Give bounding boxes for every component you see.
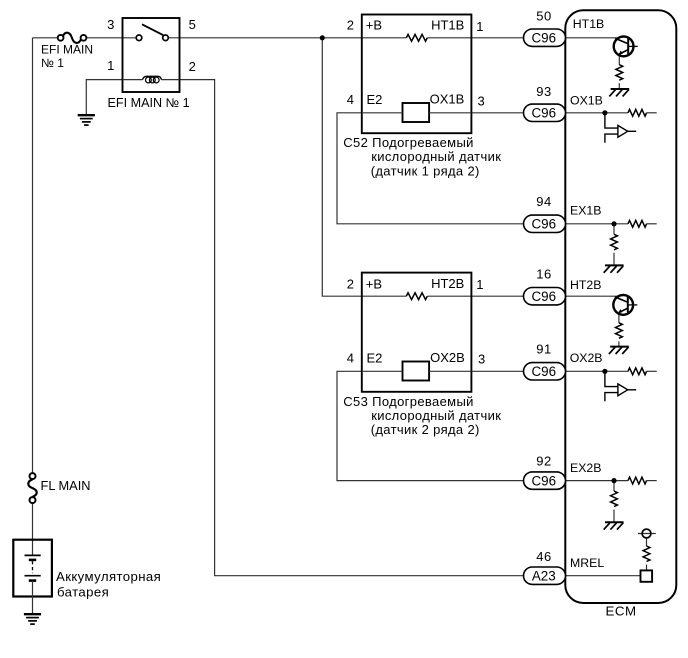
svg-text:C96: C96 bbox=[532, 474, 557, 489]
svg-text:Аккумуляторная: Аккумуляторная bbox=[56, 569, 161, 584]
svg-text:92: 92 bbox=[536, 453, 551, 468]
svg-text:2: 2 bbox=[189, 59, 196, 74]
node EX2B bbox=[611, 478, 616, 483]
svg-text:3: 3 bbox=[478, 352, 485, 367]
ground (relay coil) bbox=[78, 115, 95, 125]
connector C96 pin 50 oval bbox=[524, 8, 566, 46]
svg-text:HT1B: HT1B bbox=[573, 17, 604, 31]
svg-text:OX1B: OX1B bbox=[430, 92, 465, 107]
wire OX2B oval to resistor bbox=[566, 370, 629, 372]
wire relay pin 1 to coil bbox=[123, 79, 143, 81]
sensor C52 element box bbox=[403, 103, 430, 122]
connector C96 pin 94 oval bbox=[524, 194, 566, 233]
wire EX2B resistor to chassis ground bbox=[613, 510, 615, 522]
chassis ground HT2B bbox=[609, 347, 629, 354]
wire junction to C53 +B bbox=[322, 38, 406, 296]
svg-text:E2: E2 bbox=[367, 92, 383, 107]
svg-text:EFI MAIN: EFI MAIN bbox=[41, 42, 93, 56]
wire relay pin 5 to C52 +B bbox=[168, 37, 406, 39]
sensor C53 element box bbox=[403, 362, 430, 381]
svg-text:+B: +B bbox=[366, 276, 382, 291]
ECM box bbox=[565, 10, 676, 603]
wire HT2B oval to transistor bbox=[566, 295, 620, 297]
resistor HT2B emitter bbox=[616, 323, 623, 339]
wire battery negative to ground bbox=[32, 581, 34, 614]
chassis ground EX1B bbox=[604, 265, 624, 272]
svg-text:HT2B: HT2B bbox=[431, 276, 464, 291]
wire MREL oval to driver square bbox=[566, 575, 641, 577]
connector C96 pin 16 oval bbox=[524, 267, 566, 305]
svg-text:94: 94 bbox=[536, 194, 551, 209]
relay switch contact right bbox=[163, 35, 169, 41]
wire C52 E2 inside bbox=[362, 112, 403, 114]
svg-text:OX2B: OX2B bbox=[570, 351, 603, 365]
svg-text:ECM: ECM bbox=[605, 604, 636, 619]
wire relay pin 2 to A23 oval bbox=[180, 80, 524, 576]
transistor HT2B driver bbox=[613, 295, 637, 315]
svg-text:93: 93 bbox=[536, 84, 551, 99]
wire MREL supply bar bbox=[638, 533, 656, 535]
wire EX1B pulldown bbox=[613, 224, 615, 235]
wire C53 +B resistor to HT2B oval bbox=[427, 295, 523, 297]
chassis ground EX2B bbox=[604, 522, 624, 529]
sensor C53 box bbox=[362, 273, 472, 392]
svg-text:EFI MAIN № 1: EFI MAIN № 1 bbox=[108, 96, 190, 110]
svg-text:(датчик 2 ряда 2): (датчик 2 ряда 2) bbox=[371, 422, 480, 437]
svg-text:C96: C96 bbox=[532, 217, 557, 232]
relay coil bbox=[143, 76, 162, 79]
resistor C53 heater bbox=[406, 293, 427, 300]
wire coil to relay pin 2 bbox=[161, 79, 179, 81]
svg-text:1: 1 bbox=[107, 58, 114, 73]
relay box EFI MAIN No1 bbox=[123, 18, 180, 92]
svg-text:5: 5 bbox=[189, 17, 196, 32]
svg-text:1: 1 bbox=[476, 277, 483, 292]
wire top horizontal from riser to fuse bbox=[33, 37, 58, 39]
wire C53 E2 inside bbox=[362, 370, 403, 372]
svg-text:3: 3 bbox=[478, 93, 485, 108]
fuse FL MAIN bbox=[28, 473, 36, 503]
svg-text:16: 16 bbox=[536, 267, 551, 282]
svg-text:EX2B: EX2B bbox=[570, 461, 601, 475]
wire C52 OX1B to oval bbox=[472, 112, 524, 114]
svg-text:OX1B: OX1B bbox=[570, 93, 603, 107]
connector C96 pin 92 oval bbox=[524, 453, 566, 489]
connector C96 pin 91 oval bbox=[524, 341, 566, 380]
battery cell 1 positive plate bbox=[25, 554, 41, 556]
svg-text:кислородный датчик: кислородный датчик bbox=[371, 149, 501, 164]
svg-text:4: 4 bbox=[347, 350, 354, 365]
relay switch blade bbox=[142, 24, 163, 35]
wire OX2B resistor stub bbox=[647, 370, 657, 372]
battery cell 2 negative plate bbox=[29, 579, 36, 582]
svg-text:E2: E2 bbox=[367, 350, 383, 365]
wire EX1B resistor to chassis ground bbox=[613, 253, 615, 265]
resistor EX1B pulldown bbox=[611, 234, 618, 250]
wire MREL supply circle to resistor bbox=[646, 538, 648, 546]
wire C52 element to OX1B pin bbox=[429, 112, 471, 114]
wire EX1B resistor stub bbox=[647, 223, 657, 225]
battery cell 1 negative plate bbox=[29, 559, 36, 562]
MREL supply terminal circle bbox=[642, 529, 651, 538]
svg-text:C53 Подогреваемый: C53 Подогреваемый bbox=[343, 394, 473, 409]
wire EX2B resistor stub bbox=[647, 480, 657, 482]
svg-text:HT1B: HT1B bbox=[431, 18, 464, 33]
svg-text:C96: C96 bbox=[532, 106, 557, 121]
MREL driver square bbox=[641, 570, 653, 581]
wire HT1B oval to transistor bbox=[566, 37, 620, 39]
wire HT1B resistor to chassis ground bbox=[618, 83, 620, 88]
resistor EX1B series bbox=[628, 220, 647, 227]
resistor OX2B series bbox=[628, 368, 647, 375]
svg-text:C96: C96 bbox=[532, 289, 557, 304]
resistor OX1B series bbox=[628, 109, 647, 116]
svg-text:OX2B: OX2B bbox=[430, 350, 465, 365]
connector A23 pin 46 oval bbox=[524, 549, 566, 585]
wire C52 E2 to EX1B oval bbox=[337, 113, 524, 224]
svg-text:+B: +B bbox=[366, 18, 382, 33]
resistor EX2B series bbox=[628, 477, 647, 484]
chassis ground HT1B bbox=[609, 89, 629, 96]
relay switch contact left bbox=[136, 35, 142, 41]
wire OX1B resistor stub bbox=[647, 112, 657, 114]
wire OX1B oval to resistor bbox=[566, 112, 629, 114]
wire relay pin 1 to ground bbox=[86, 80, 122, 115]
sensor C52 box bbox=[362, 15, 472, 134]
resistor EX2B pulldown bbox=[611, 491, 618, 507]
resistor MREL pullup bbox=[643, 546, 650, 562]
wire: battery positive riser + top feed bbox=[33, 38, 657, 576]
resistor C52 heater bbox=[406, 34, 427, 41]
wire HT2B resistor to chassis ground bbox=[618, 341, 620, 346]
wire fuse to relay pin 3 bbox=[86, 37, 136, 39]
svg-text:50: 50 bbox=[536, 8, 551, 23]
svg-text:1: 1 bbox=[476, 19, 483, 34]
wire C53 E2 to EX2B oval bbox=[337, 371, 524, 480]
wire EX2B pulldown bbox=[613, 481, 615, 492]
wire MREL resistor to square bbox=[646, 565, 648, 571]
svg-text:46: 46 bbox=[536, 549, 551, 564]
svg-text:91: 91 bbox=[536, 341, 551, 356]
wire C52 +B resistor to HT1B oval bbox=[427, 37, 523, 39]
transistor HT1B driver bbox=[614, 37, 638, 57]
wire HT2B emitter to resistor bbox=[618, 313, 620, 323]
comparator OX1B input stage bbox=[605, 113, 636, 143]
resistor HT1B emitter bbox=[616, 65, 623, 81]
node EX1B bbox=[611, 221, 616, 226]
svg-text:кислородный датчик: кислородный датчик bbox=[371, 408, 501, 423]
wire C53 OX2B to oval bbox=[472, 370, 524, 372]
wire EX2B oval to resistor bbox=[566, 480, 629, 482]
comparator OX2B input stage bbox=[605, 371, 636, 401]
svg-text:MREL: MREL bbox=[570, 556, 604, 570]
wire C53 element to OX2B pin bbox=[429, 370, 471, 372]
ground (battery) bbox=[24, 614, 41, 624]
svg-text:батарея: батарея bbox=[57, 585, 109, 600]
svg-text:2: 2 bbox=[347, 18, 354, 33]
svg-text:C96: C96 bbox=[532, 31, 557, 46]
wire HT1B emitter to resistor bbox=[618, 54, 620, 64]
svg-text:№ 1: № 1 bbox=[41, 56, 64, 70]
battery box bbox=[13, 540, 52, 597]
svg-text:FL MAIN: FL MAIN bbox=[41, 478, 91, 493]
fuse EFI MAIN No1 bbox=[58, 33, 87, 43]
wire fuse FL MAIN to battery bbox=[32, 503, 34, 555]
svg-text:(датчик 1 ряда 2): (датчик 1 ряда 2) bbox=[371, 163, 480, 178]
node OX1B bbox=[602, 110, 607, 115]
svg-text:C52 Подогреваемый: C52 Подогреваемый bbox=[343, 135, 473, 150]
connector C96 pin 93 oval bbox=[524, 84, 566, 122]
wire left riser bbox=[32, 38, 34, 473]
svg-text:HT2B: HT2B bbox=[570, 278, 601, 292]
node junction at relay output bbox=[320, 35, 325, 40]
svg-text:C96: C96 bbox=[532, 364, 557, 379]
svg-text:3: 3 bbox=[107, 17, 114, 32]
battery cell 2 positive plate bbox=[25, 575, 41, 577]
svg-text:A23: A23 bbox=[532, 569, 556, 584]
wire EX1B oval to resistor bbox=[566, 223, 629, 225]
node OX2B bbox=[602, 369, 607, 374]
battery inter-cell dashed link bbox=[32, 561, 34, 573]
svg-text:4: 4 bbox=[347, 92, 354, 107]
svg-text:EX1B: EX1B bbox=[570, 204, 601, 218]
svg-text:2: 2 bbox=[347, 276, 354, 291]
